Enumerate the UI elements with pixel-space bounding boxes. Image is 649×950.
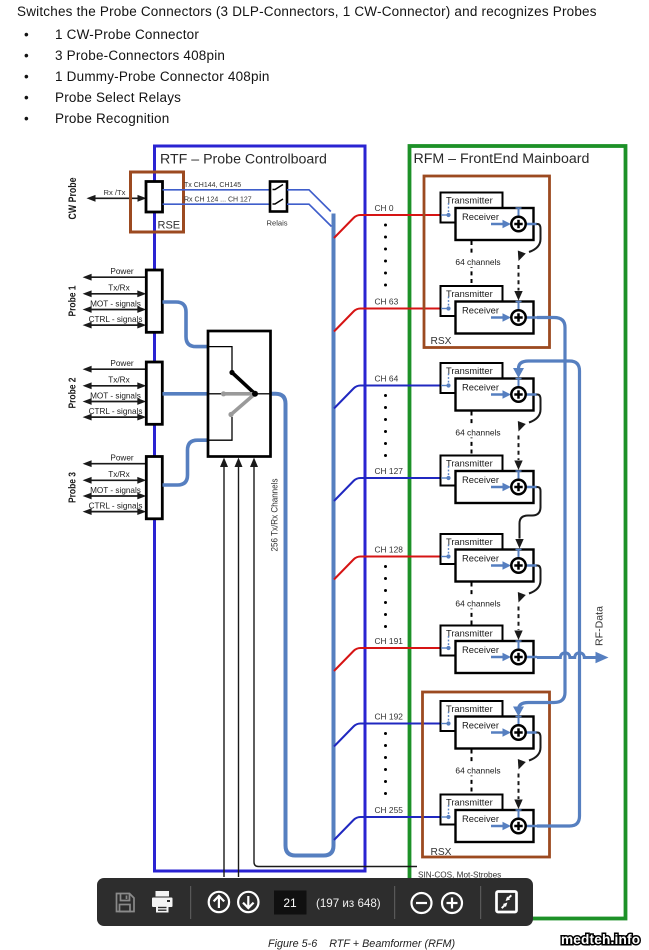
board box RSX upper bbox=[424, 176, 550, 348]
wire stub above summer bbox=[518, 208, 520, 218]
wire right bus to CH255 out bbox=[537, 361, 580, 826]
svg-text:Probe 3: Probe 3 bbox=[67, 472, 79, 503]
wire channel line CH 127 bbox=[334, 478, 441, 501]
wire probe1 to switch bbox=[163, 302, 209, 347]
svg-text:Transmitter: Transmitter bbox=[446, 459, 493, 469]
wire channel line CH 64 bbox=[334, 386, 441, 409]
wire CW probe Rx/Tx double arrow bbox=[89, 197, 144, 199]
wire channel line CH 63 bbox=[334, 309, 441, 332]
svg-text:Transmitter: Transmitter bbox=[446, 289, 493, 299]
receiver block CH 255 bbox=[456, 810, 534, 842]
svg-text:Receiver: Receiver bbox=[462, 382, 499, 393]
svg-text:CH 128: CH 128 bbox=[375, 545, 404, 555]
wire Probe 2 MOT - signals arrow bbox=[89, 401, 139, 403]
connector Probe 2 bbox=[146, 362, 162, 424]
wire probe3 to switch bbox=[163, 440, 209, 485]
transmitter block CH 64 bbox=[441, 363, 503, 393]
svg-text:(197 из 648): (197 из 648) bbox=[316, 897, 381, 910]
node contact 2 bbox=[221, 391, 226, 396]
receiver block CH 191 bbox=[456, 641, 534, 673]
icon fullscreen toggle bbox=[497, 892, 517, 913]
svg-text:Transmitter: Transmitter bbox=[446, 629, 493, 639]
separator bbox=[394, 886, 395, 919]
receiver block CH 0 bbox=[456, 208, 534, 240]
wire channel stub into transmitter bbox=[441, 214, 449, 216]
wire receiver arrow bbox=[491, 564, 504, 567]
wire summer chain CH 127 to CH 128 bbox=[520, 487, 541, 539]
wire Probe 3 Tx/Rx arrow bbox=[89, 479, 139, 481]
switch box probe select bbox=[208, 331, 271, 457]
node contact 1 bbox=[229, 370, 234, 375]
icon print bbox=[152, 891, 173, 913]
summer (plus circle) CH 128 bbox=[511, 558, 525, 572]
summer (plus circle) CH 192 bbox=[511, 725, 525, 739]
summer (plus circle) CH 64 bbox=[511, 387, 525, 401]
wire 256 Tx/Rx channel bus bbox=[271, 214, 334, 856]
svg-text:CTRL - signals: CTRL - signals bbox=[89, 315, 143, 324]
wire summer chain CH 128 to CH 191 bbox=[529, 566, 541, 594]
transmitter block CH 191 bbox=[441, 626, 503, 656]
wire stub right of summer bbox=[524, 486, 537, 489]
wire Probe 1 CTRL - signals arrow bbox=[89, 324, 139, 326]
svg-text:Transmitter: Transmitter bbox=[446, 196, 493, 206]
svg-text:CH 64: CH 64 bbox=[375, 374, 399, 384]
wire stub right of summer bbox=[524, 656, 537, 659]
svg-text:RTF – Probe Controlboard: RTF – Probe Controlboard bbox=[160, 152, 327, 168]
svg-text:MOT - signals: MOT - signals bbox=[90, 299, 141, 308]
board box RFM FrontEnd Mainboard bbox=[410, 146, 626, 919]
svg-text:MOT - signals: MOT - signals bbox=[90, 486, 141, 495]
summer (plus circle) CH 0 bbox=[511, 217, 525, 231]
wire switch control 2 bbox=[238, 465, 240, 877]
transmitter block CH 127 bbox=[441, 456, 503, 486]
receiver block CH 63 bbox=[456, 302, 534, 334]
connector Probe 3 bbox=[146, 457, 162, 519]
svg-text:RF-Data: RF-Data bbox=[595, 606, 606, 646]
wire stub above summer bbox=[518, 810, 520, 820]
wire switch inner from probe2 bbox=[208, 393, 221, 395]
wire Probe 2 Power arrow bbox=[89, 368, 146, 370]
svg-text:RSX: RSX bbox=[431, 847, 452, 858]
switch blade selected (black) bbox=[232, 373, 255, 394]
icon zoom in bbox=[442, 893, 462, 913]
wire receiver arrow bbox=[491, 393, 504, 396]
wire stub right of summer bbox=[524, 825, 537, 828]
wire channel line CH 192 bbox=[334, 724, 441, 747]
box RSE (brown) bbox=[131, 172, 184, 232]
wire channel stub into transmitter bbox=[441, 556, 449, 558]
wire stub right of summer bbox=[524, 564, 537, 567]
svg-text:64 channels: 64 channels bbox=[455, 599, 500, 609]
wire Probe 1 Power arrow bbox=[89, 276, 146, 278]
wire stub above summer bbox=[518, 717, 520, 727]
receiver block CH 128 bbox=[456, 550, 534, 582]
wire switch inner from probe1 bbox=[208, 347, 232, 371]
transmitter block CH 192 bbox=[441, 701, 503, 731]
wire relais out 2 bbox=[287, 204, 332, 226]
receiver block CH 192 bbox=[456, 717, 534, 749]
wire summer chain CH 192 to CH 255 bbox=[529, 733, 541, 761]
switch blade 2 (gray) bbox=[224, 392, 256, 396]
svg-text:CH 255: CH 255 bbox=[375, 805, 404, 815]
wire Rx CH124..CH127 bbox=[163, 203, 271, 205]
wire channel stub into transmitter bbox=[441, 816, 449, 818]
dots column between CH 64 and CH 127 bbox=[384, 394, 387, 457]
wire receiver arrow bbox=[491, 731, 504, 734]
watermark medteh.info bbox=[540, 925, 649, 949]
bullet list bbox=[0, 24, 270, 129]
svg-text:Transmitter: Transmitter bbox=[446, 366, 493, 376]
connector in RSE bbox=[146, 182, 163, 213]
heading text bbox=[17, 4, 597, 19]
svg-text:RFM – FrontEnd Mainboard: RFM – FrontEnd Mainboard bbox=[414, 151, 590, 167]
summer (plus circle) CH 127 bbox=[511, 480, 525, 494]
wire receiver arrow bbox=[491, 486, 504, 489]
svg-text:Power: Power bbox=[110, 454, 133, 463]
svg-text:Transmitter: Transmitter bbox=[446, 704, 493, 714]
wire channel stub into transmitter bbox=[441, 723, 449, 725]
node contact 3 bbox=[228, 412, 233, 417]
wire stub above summer bbox=[518, 641, 520, 651]
wire 64 channels dashed bbox=[471, 583, 473, 626]
svg-text:Transmitter: Transmitter bbox=[446, 798, 493, 808]
receiver block CH 127 bbox=[456, 471, 534, 503]
svg-text:CTRL - signals: CTRL - signals bbox=[89, 501, 143, 510]
svg-text:Receiver: Receiver bbox=[462, 305, 499, 316]
svg-text:medteh.info: medteh.info bbox=[561, 932, 640, 947]
wire 64 channels dashed bbox=[471, 750, 473, 795]
svg-text:Tx/Rx: Tx/Rx bbox=[108, 284, 129, 293]
dots column between CH 0 and CH 63 bbox=[384, 224, 387, 287]
dots column between CH 192 and CH 255 bbox=[384, 732, 387, 795]
wire summer chain CH 64 to CH 127 bbox=[529, 395, 541, 423]
transmitter block CH 63 bbox=[441, 286, 503, 316]
icon save floppy bbox=[117, 894, 135, 912]
relay box Relais bbox=[270, 182, 287, 212]
wire receiver arrow bbox=[491, 656, 504, 659]
svg-text:Rx CH 124 ... CH 127: Rx CH 124 ... CH 127 bbox=[184, 197, 252, 204]
svg-text:Tx CH144, CH145: Tx CH144, CH145 bbox=[184, 182, 241, 189]
wire switch control 1 bbox=[223, 465, 225, 877]
relay contact lower bbox=[273, 199, 284, 204]
wire stub above summer bbox=[518, 471, 520, 481]
icon zoom out bbox=[412, 893, 432, 913]
wire sum bus CH63 out, down to CH192 arrow bbox=[519, 318, 566, 710]
wire pole to box edge bbox=[255, 393, 271, 395]
wire Probe 3 Power arrow bbox=[89, 463, 146, 465]
svg-text:Relais: Relais bbox=[267, 219, 288, 228]
svg-text:RSX: RSX bbox=[431, 336, 452, 347]
wire stub right of summer bbox=[524, 316, 537, 319]
wire Probe 1 MOT - signals arrow bbox=[89, 309, 139, 311]
svg-text:CH 63: CH 63 bbox=[375, 297, 399, 307]
summer (plus circle) CH 191 bbox=[511, 650, 525, 664]
summer (plus circle) CH 63 bbox=[511, 310, 525, 324]
icon page down bbox=[238, 892, 258, 912]
wire summer chain CH 0 to CH 63 bbox=[529, 224, 541, 252]
wire probe2 to switch bbox=[163, 392, 209, 396]
wire channel stub into transmitter bbox=[441, 477, 449, 479]
wire channel stub into transmitter bbox=[441, 385, 449, 387]
wire stub above summer bbox=[518, 379, 520, 389]
connector Probe 1 bbox=[146, 270, 162, 332]
wire stub above summer bbox=[518, 550, 520, 560]
svg-text:Receiver: Receiver bbox=[462, 644, 499, 655]
transmitter block CH 128 bbox=[441, 534, 503, 564]
wire Probe 3 CTRL - signals arrow bbox=[89, 511, 139, 513]
wire channel stub into transmitter bbox=[441, 308, 449, 310]
wire channel stub into transmitter bbox=[441, 647, 449, 649]
caption bbox=[268, 938, 455, 950]
svg-text:21: 21 bbox=[283, 896, 297, 910]
wire 64 channels dashed bbox=[471, 241, 473, 286]
pdf viewer toolbar bbox=[97, 878, 533, 926]
wire channel line CH 255 bbox=[334, 817, 441, 840]
svg-text:MOT - signals: MOT - signals bbox=[90, 391, 141, 400]
dots column between CH 128 and CH 191 bbox=[384, 565, 387, 628]
svg-text:Power: Power bbox=[110, 359, 133, 368]
node switch pole bbox=[252, 391, 258, 397]
svg-text:Receiver: Receiver bbox=[462, 474, 499, 485]
wire switch inner from probe3 bbox=[208, 417, 232, 440]
wire Tx CH144 CH145 bbox=[163, 189, 271, 191]
svg-text:CH 191: CH 191 bbox=[375, 636, 404, 646]
svg-text:Power: Power bbox=[110, 267, 133, 276]
svg-text:CTRL - signals: CTRL - signals bbox=[89, 407, 143, 416]
wire receiver arrow bbox=[491, 825, 504, 828]
svg-text:64 channels: 64 channels bbox=[455, 257, 500, 267]
icon page up bbox=[209, 892, 229, 912]
wire receiver arrow bbox=[491, 223, 504, 226]
wire 64 channels dashed bbox=[471, 412, 473, 456]
svg-text:64 channels: 64 channels bbox=[455, 428, 500, 438]
svg-text:Receiver: Receiver bbox=[462, 720, 499, 731]
svg-text:RSE: RSE bbox=[158, 220, 181, 232]
wire receiver arrow bbox=[491, 316, 504, 319]
summer (plus circle) CH 255 bbox=[511, 819, 525, 833]
wire channel line CH 191 bbox=[334, 648, 441, 671]
wire stub right of summer bbox=[524, 731, 537, 734]
wire Probe 1 Tx/Rx arrow bbox=[89, 293, 139, 295]
transmitter block CH 0 bbox=[441, 193, 503, 223]
svg-text:Rx /Tx: Rx /Tx bbox=[104, 188, 126, 197]
svg-text:CH 192: CH 192 bbox=[375, 712, 404, 722]
separator bbox=[190, 886, 191, 919]
svg-text:Tx/Rx: Tx/Rx bbox=[108, 470, 129, 479]
relay contact upper bbox=[273, 185, 284, 190]
wire stub right of summer bbox=[524, 393, 537, 396]
svg-text:Probe 1: Probe 1 bbox=[67, 285, 79, 316]
svg-text:Receiver: Receiver bbox=[462, 553, 499, 564]
transmitter block CH 255 bbox=[441, 795, 503, 825]
wire relais out 1 bbox=[287, 190, 331, 212]
wire channel line CH 0 bbox=[334, 215, 441, 238]
board box RTF Probe Controlboard bbox=[155, 146, 366, 871]
svg-text:Receiver: Receiver bbox=[462, 813, 499, 824]
wire Probe 2 CTRL - signals arrow bbox=[89, 416, 139, 418]
wire Probe 2 Tx/Rx arrow bbox=[89, 385, 139, 387]
receiver block CH 64 bbox=[456, 379, 534, 411]
svg-text:256 Tx/Rx Channels: 256 Tx/Rx Channels bbox=[270, 478, 280, 551]
svg-text:Probe 2: Probe 2 bbox=[67, 377, 79, 408]
svg-text:CH 127: CH 127 bbox=[375, 466, 404, 476]
wire channel line CH 128 bbox=[334, 557, 441, 580]
svg-text:CW Probe: CW Probe bbox=[67, 178, 79, 220]
wire stub right of summer bbox=[524, 223, 537, 226]
svg-text:64 channels: 64 channels bbox=[455, 766, 500, 776]
wire stub above summer bbox=[518, 302, 520, 312]
svg-text:Tx/Rx: Tx/Rx bbox=[108, 376, 129, 385]
board box RSX lower bbox=[423, 692, 550, 857]
svg-text:Transmitter: Transmitter bbox=[446, 537, 493, 547]
svg-text:CH 0: CH 0 bbox=[375, 203, 394, 213]
svg-text:Receiver: Receiver bbox=[462, 211, 499, 222]
wire Probe 3 MOT - signals arrow bbox=[89, 495, 139, 497]
separator bbox=[480, 886, 481, 919]
page number box bbox=[274, 891, 307, 915]
wire branch arrow into CH64 summer bbox=[519, 361, 566, 369]
wire switch control 3 bbox=[254, 465, 417, 867]
wire RF-Data output with hops bbox=[537, 653, 596, 658]
switch blade 3 (gray) bbox=[231, 394, 255, 415]
